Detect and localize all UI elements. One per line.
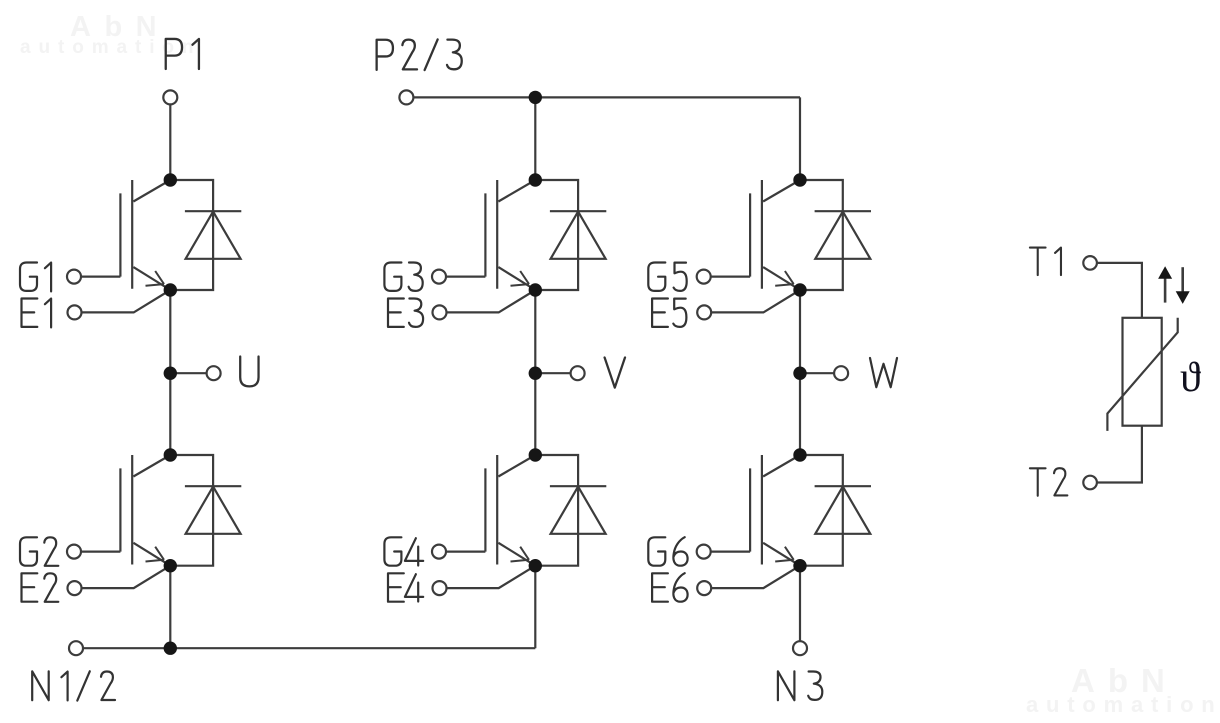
terminal circle N1/2 (69, 641, 83, 655)
wire: right leg top drop (799, 97, 801, 180)
thermistor R (NTC) body (1107, 318, 1177, 431)
label G1 (20, 263, 51, 292)
label E5 (652, 299, 686, 327)
junction left leg collector node Q-bottom (164, 448, 177, 461)
transistor Q6 (750, 455, 800, 566)
thermistor terminal T1 (1083, 256, 1142, 318)
label U (240, 357, 258, 387)
label V (605, 358, 625, 388)
aux emitter terminal E6 (697, 566, 800, 595)
label E3 (388, 299, 423, 327)
freewheeling diode D3 (535, 180, 606, 290)
transistor Q2 (120, 455, 170, 566)
wire: left leg mid section (169, 290, 171, 455)
aux emitter terminal E5 (697, 290, 800, 319)
theta symbol (1180, 355, 1201, 401)
wire: middle leg top drop (534, 97, 536, 180)
junction left leg emitter node Q-top (164, 283, 177, 296)
label E6 (652, 573, 688, 602)
watermark top-left automation (20, 37, 201, 59)
junction middle leg emitter node Q-bottom (529, 559, 542, 572)
phase output terminal U (170, 366, 220, 380)
wire: right leg bottom section (799, 566, 801, 642)
junction left leg phase node (164, 367, 177, 380)
aux emitter terminal E4 (433, 566, 536, 595)
wire: left leg bottom section (169, 566, 171, 649)
phase output terminal V (535, 366, 584, 380)
label G2 (20, 537, 58, 566)
terminal circle P1 (163, 90, 177, 104)
temperature arrows up/down (1158, 266, 1190, 304)
label G6 (648, 537, 687, 566)
label G3 (384, 263, 422, 291)
freewheeling diode D4 (535, 455, 606, 566)
freewheeling diode D1 (170, 180, 241, 290)
transistor Q3 (485, 180, 535, 290)
gate terminal G1 (67, 270, 120, 284)
junction middle leg emitter node Q-top (529, 283, 542, 296)
aux emitter terminal E1 (68, 290, 171, 319)
svg-text:ϑ: ϑ (1180, 355, 1201, 401)
aux emitter terminal E3 (433, 290, 536, 319)
terminal circle N3 (793, 641, 807, 655)
watermark top-left AbN (70, 11, 170, 44)
junction node N1/2 bus (164, 642, 177, 655)
junction node P2/3 bus (529, 91, 542, 104)
junction right leg phase node (793, 367, 806, 380)
label P1 (166, 39, 199, 69)
aux emitter terminal E2 (68, 566, 171, 595)
label P2/3 (377, 39, 462, 70)
label E1 (22, 299, 52, 328)
main DC+ bus wire P2/3 (413, 96, 800, 98)
label T1 (1030, 248, 1061, 276)
gate terminal G3 (432, 270, 485, 284)
thermistor terminal T2 (1083, 426, 1142, 490)
freewheeling diode D2 (170, 455, 241, 566)
gate terminal G4 (432, 545, 485, 559)
wire: middle leg mid section (534, 290, 536, 455)
junction left leg collector node Q-top (164, 173, 177, 186)
transistor Q4 (485, 455, 535, 566)
junction middle leg phase node (529, 367, 542, 380)
label E4 (388, 573, 423, 601)
junction middle leg collector node Q-top (529, 173, 542, 186)
watermark bottom-right automation (1026, 692, 1220, 718)
watermark bottom-right AbN (1071, 662, 1178, 700)
wire: left leg P1 drop (169, 104, 171, 180)
terminal circle P2/3 (399, 90, 413, 104)
gate terminal G5 (697, 270, 750, 284)
freewheeling diode D6 (800, 455, 871, 566)
wire: middle leg bottom section (534, 566, 536, 649)
phase output terminal W (800, 366, 848, 380)
label E2 (22, 573, 59, 602)
junction left leg emitter node Q-bottom (164, 559, 177, 572)
label N1/2 (32, 671, 115, 700)
label T2 (1030, 468, 1067, 496)
wire: right leg mid section (799, 290, 801, 455)
junction middle leg collector node Q-bottom (529, 448, 542, 461)
junction right leg emitter node Q-top (793, 283, 806, 296)
freewheeling diode D5 (800, 180, 871, 290)
bottom bus wire N1/2 (83, 647, 535, 649)
gate terminal G6 (697, 545, 750, 559)
junction right leg emitter node Q-bottom (793, 559, 806, 572)
label G4 (384, 537, 423, 565)
label G5 (648, 263, 686, 291)
transistor Q5 (750, 180, 800, 290)
label N3 (778, 671, 822, 700)
label W (870, 358, 897, 387)
gate terminal G2 (67, 545, 120, 559)
junction right leg collector node Q-top (793, 173, 806, 186)
transistor Q1 (120, 180, 170, 290)
junction right leg collector node Q-bottom (793, 448, 806, 461)
